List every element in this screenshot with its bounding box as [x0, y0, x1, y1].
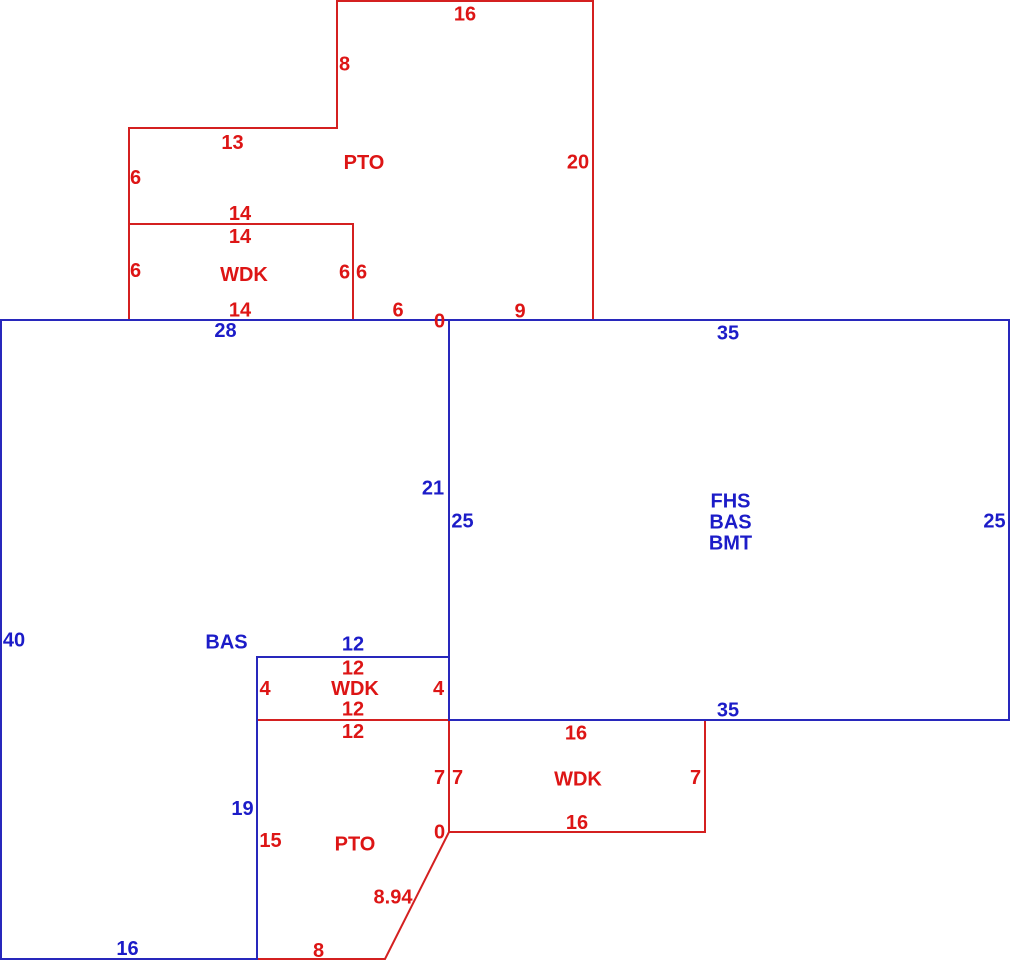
WDK wood deck outline (bottom right)	[449, 720, 705, 832]
svg-text:25: 25	[983, 511, 1005, 533]
svg-text:6: 6	[130, 260, 141, 282]
svg-text:14: 14	[229, 226, 252, 248]
svg-text:21: 21	[422, 478, 444, 500]
svg-text:14: 14	[229, 300, 252, 322]
svg-text:8: 8	[313, 940, 324, 962]
svg-text:6: 6	[356, 262, 367, 284]
svg-text:BMT: BMT	[709, 533, 752, 555]
svg-text:12: 12	[342, 721, 364, 743]
svg-text:6: 6	[130, 167, 141, 189]
FHS/BAS/BMT outline (right)	[449, 320, 1009, 720]
PTO patio outline (bottom)	[257, 720, 449, 959]
svg-text:16: 16	[454, 4, 476, 26]
svg-text:WDK: WDK	[220, 264, 268, 286]
svg-text:PTO: PTO	[335, 834, 376, 856]
svg-text:0: 0	[434, 311, 445, 333]
svg-text:7: 7	[434, 767, 445, 789]
PTO patio outline (top)	[129, 1, 593, 320]
svg-text:6: 6	[339, 262, 350, 284]
svg-text:BAS: BAS	[205, 632, 247, 654]
WDK wood deck outline (upper)	[129, 224, 353, 320]
svg-text:8: 8	[339, 54, 350, 76]
svg-text:19: 19	[231, 798, 253, 820]
svg-text:35: 35	[717, 700, 739, 722]
svg-text:4: 4	[433, 678, 445, 700]
svg-text:16: 16	[116, 938, 138, 960]
BAS first floor outline (left)	[1, 320, 449, 959]
svg-text:13: 13	[221, 132, 243, 154]
svg-text:16: 16	[566, 812, 588, 834]
svg-text:6: 6	[392, 300, 403, 322]
svg-text:4: 4	[259, 678, 271, 700]
svg-text:BAS: BAS	[709, 512, 751, 534]
svg-text:WDK: WDK	[554, 769, 602, 791]
svg-text:40: 40	[3, 630, 25, 652]
svg-text:7: 7	[452, 767, 463, 789]
svg-text:12: 12	[342, 658, 364, 680]
WDK wood deck outline (middle)	[257, 657, 449, 720]
svg-text:PTO: PTO	[344, 152, 385, 174]
svg-text:7: 7	[690, 767, 701, 789]
svg-text:12: 12	[342, 699, 364, 721]
svg-text:35: 35	[717, 323, 739, 345]
svg-text:25: 25	[451, 511, 473, 533]
svg-text:FHS: FHS	[711, 491, 751, 513]
svg-text:20: 20	[567, 152, 589, 174]
svg-text:14: 14	[229, 203, 252, 225]
svg-text:8.94: 8.94	[374, 887, 414, 909]
svg-text:0: 0	[434, 822, 445, 844]
svg-text:16: 16	[565, 723, 587, 745]
svg-text:12: 12	[342, 634, 364, 656]
svg-text:15: 15	[259, 830, 281, 852]
svg-text:WDK: WDK	[331, 678, 379, 700]
svg-text:28: 28	[214, 320, 236, 342]
svg-text:9: 9	[514, 301, 525, 323]
